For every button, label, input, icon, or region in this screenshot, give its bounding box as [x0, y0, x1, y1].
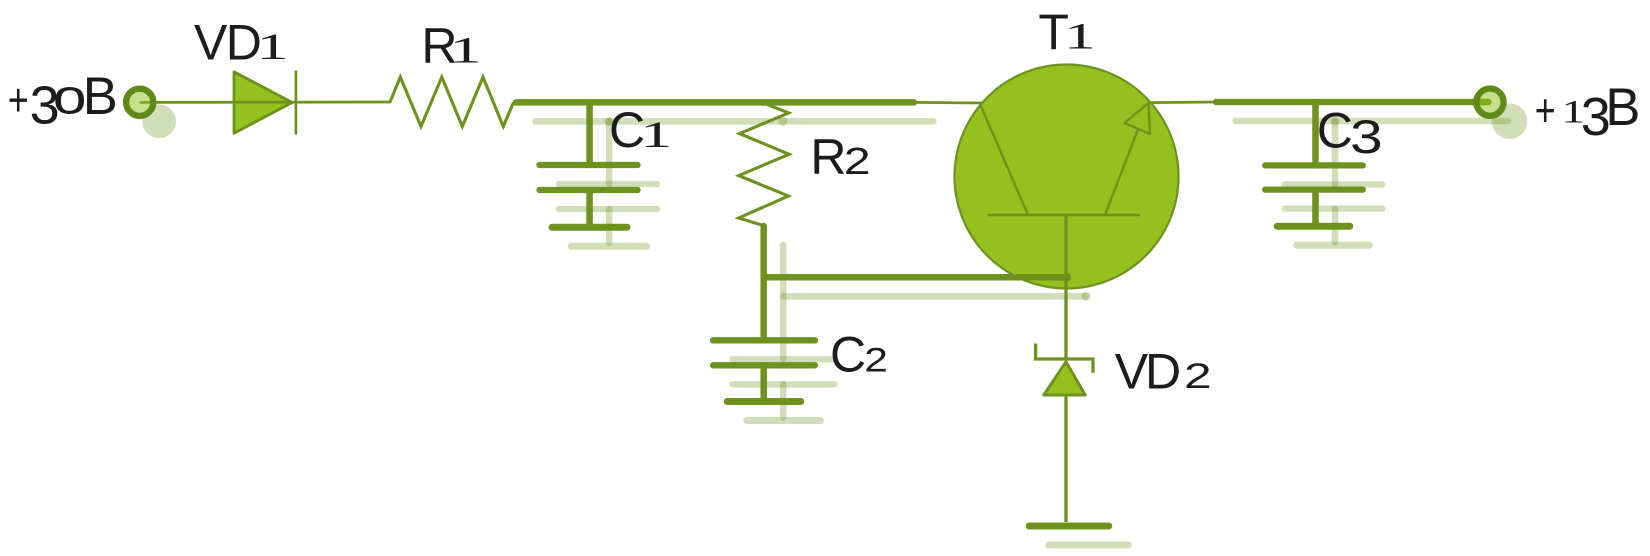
svg-text:R: R [810, 129, 846, 185]
svg-text:В: В [83, 67, 118, 126]
svg-text:V: V [194, 14, 228, 70]
svg-text:V: V [1115, 343, 1149, 399]
svg-text:C: C [830, 327, 866, 383]
svg-text:2: 2 [1184, 357, 1212, 396]
svg-text:1: 1 [449, 30, 481, 71]
svg-text:1: 1 [1064, 16, 1096, 57]
svg-text:+: + [8, 74, 29, 125]
svg-text:C: C [1317, 103, 1353, 159]
svg-text:o: o [53, 69, 87, 124]
svg-text:В: В [1605, 78, 1640, 137]
svg-text:1: 1 [256, 27, 288, 68]
svg-text:1: 1 [640, 115, 672, 156]
svg-text:3: 3 [1350, 112, 1383, 164]
svg-text:+: + [1535, 85, 1556, 136]
svg-text:D: D [1145, 343, 1181, 399]
svg-text:2: 2 [844, 141, 871, 183]
svg-text:2: 2 [864, 341, 888, 379]
